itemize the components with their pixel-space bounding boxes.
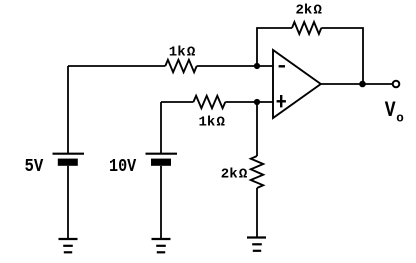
- wire: 5V branch vertical: [67, 66, 69, 153]
- node: junction dot at non-inverting input: [254, 99, 260, 105]
- node: output junction dot: [359, 81, 366, 88]
- svg-text:5V: 5V: [25, 156, 45, 177]
- wire: inverting input wire from 5V branch: [68, 65, 165, 67]
- wire: non-inverting input wire to op-amp: [225, 101, 273, 103]
- wire: inverting input wire to op-amp: [197, 65, 273, 67]
- terminal: open circle output: [393, 81, 400, 88]
- op-amp U1 (triangle): [273, 50, 321, 118]
- resistor 1k-ohm (non-inverting input, zigzag): [193, 96, 225, 108]
- op-amp non-inverting input marker (plus): [277, 95, 286, 107]
- wire: 5V battery to ground: [67, 166, 69, 239]
- wire: 10V branch vertical: [160, 102, 162, 153]
- wire: feedback top right vertical down to output node: [321, 28, 363, 84]
- battery 10V source: [146, 154, 178, 166]
- wire: feedback top left vertical (node A to 2k): [257, 28, 292, 66]
- svg-text:10V: 10V: [109, 156, 137, 177]
- wire: op-amp output to terminal: [321, 83, 393, 85]
- node: junction dot at inverting input: [254, 63, 260, 69]
- ground (2k-ohm branch): [247, 238, 266, 251]
- svg-text:2kΩ: 2kΩ: [296, 3, 323, 19]
- resistor 1k-ohm (inverting input, zigzag): [165, 60, 196, 72]
- wire: 2k-ohm branch from non-inverting node down: [256, 102, 258, 156]
- svg-text:V: V: [385, 98, 396, 123]
- op-amp inverting input marker (minus): [279, 65, 285, 67]
- ground (5V branch): [59, 239, 78, 252]
- battery 5V source: [53, 154, 85, 166]
- resistor 2k-ohm feedback (zigzag): [292, 22, 321, 34]
- resistor 2k-ohm to ground (vertical zigzag): [251, 156, 263, 188]
- svg-text:o: o: [396, 111, 404, 125]
- wire: 10V battery to ground: [160, 166, 162, 239]
- svg-text:1kΩ: 1kΩ: [169, 45, 196, 61]
- ground (10V branch): [152, 239, 171, 252]
- svg-text:2kΩ: 2kΩ: [221, 167, 248, 183]
- svg-text:1kΩ: 1kΩ: [199, 115, 226, 131]
- wire: non-inverting input wire from 10V branch: [161, 101, 193, 103]
- wire: 2k-ohm to ground symbol: [256, 188, 258, 238]
